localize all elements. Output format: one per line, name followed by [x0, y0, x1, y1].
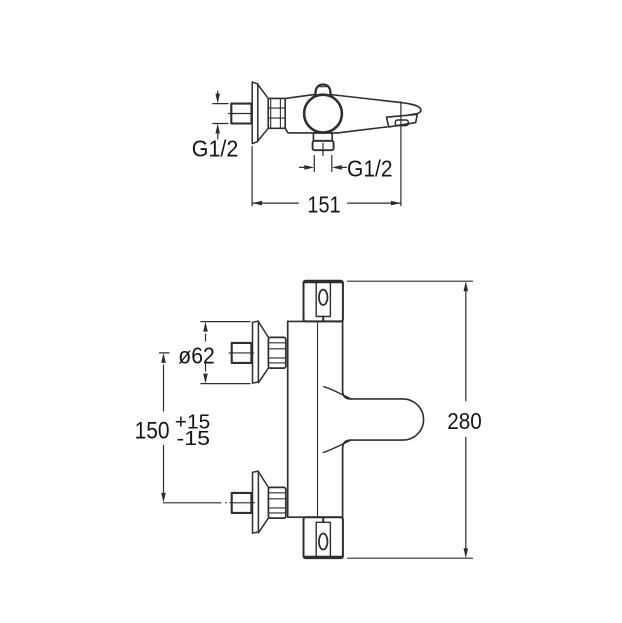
bottom knob inner face	[316, 522, 330, 557]
body column middle contour line	[317, 321, 319, 517]
svg-text:150: 150	[135, 418, 170, 445]
bottom escutcheon (bottom view)	[253, 471, 259, 533]
dimension G1/2 left: arrow up	[217, 133, 219, 139]
body bottom line (top view)	[285, 128, 337, 133]
svg-text:G1/2: G1/2	[192, 135, 239, 161]
cap nub dome (top view)	[315, 85, 330, 96]
bottom nipple centre line (dash-dot)	[164, 502, 255, 504]
svg-text:G1/2: G1/2	[347, 156, 393, 182]
bottom nut (bottom view)	[268, 487, 285, 518]
bottom knob stem	[322, 517, 324, 522]
wall nipple G1/2 (top view)	[231, 104, 251, 124]
dimension G1/2 bottom: arrow shafts	[300, 166, 306, 168]
top nut (bottom view)	[268, 337, 285, 368]
svg-text:151: 151	[307, 192, 340, 218]
body column left edge	[287, 321, 289, 517]
svg-text:ø62: ø62	[178, 342, 215, 368]
top knob oval slot	[319, 290, 328, 305]
body column right edge lower with corner into spout	[343, 440, 351, 517]
top nipple centre line	[229, 352, 254, 354]
body column right edge upper with corner into spout	[343, 321, 351, 399]
top cone	[258, 322, 268, 383]
dimension 150: dimension line	[163, 365, 165, 411]
bottom cone	[258, 472, 268, 533]
dimension 280: dimension line	[465, 292, 467, 401]
top knob inner face	[316, 282, 330, 317]
spout underside line (top view)	[338, 127, 388, 133]
outlet centre line (top view)	[322, 144, 324, 156]
aerator (top view)	[395, 120, 408, 126]
spout end piece with aerator housing (top view)	[387, 114, 418, 127]
top knob (bottom view)	[304, 281, 343, 322]
dimension 151: dimension line	[252, 202, 298, 204]
spout end-on outline	[351, 399, 424, 440]
dimension 280: extension lines	[348, 281, 473, 558]
bottom wall nipple (bottom view)	[232, 493, 252, 513]
svg-text:-15: -15	[177, 428, 211, 450]
threaded nut (top view)	[268, 98, 285, 128]
dimension o62: arrow shafts	[205, 334, 207, 341]
bottom knob (bottom view)	[304, 517, 343, 558]
dimension 150: top tick	[160, 353, 170, 492]
cone from flange to nut (top view)	[258, 85, 268, 142]
dimension 151: extension lines	[252, 102, 401, 206]
spout flare upper curve	[324, 387, 351, 399]
dimension G1/2 bottom: extension lines	[300, 156, 347, 172]
bottom knob oval slot	[319, 534, 328, 550]
outlet nut (top view)	[313, 141, 334, 150]
top escutcheon (bottom view)	[253, 321, 259, 383]
outlet neck (top view)	[313, 133, 332, 141]
cap nub chord (top view)	[319, 86, 327, 88]
body bottom edge	[288, 516, 343, 518]
svg-text:280: 280	[447, 408, 482, 434]
knob circle (top view)	[304, 95, 342, 133]
wire nipple centre line (top view)	[229, 113, 252, 115]
dimension o62: extension lines	[201, 322, 250, 384]
dimension G1/2 left: arrow down	[217, 91, 219, 95]
top knob stem	[322, 317, 324, 322]
dimension G1/2 left: extension lines	[213, 91, 228, 139]
body top line left of cap nub (top view)	[285, 94, 316, 98]
body top edge	[288, 320, 343, 322]
top wall nipple (bottom view)	[232, 343, 252, 363]
bottom knob thick bottom edge	[304, 556, 342, 558]
spout flare lower curve	[323, 440, 350, 452]
spout top line from nub to tip (top view)	[330, 95, 421, 115]
top knob thick top edge	[304, 281, 342, 283]
wall flange (top view)	[252, 82, 258, 144]
